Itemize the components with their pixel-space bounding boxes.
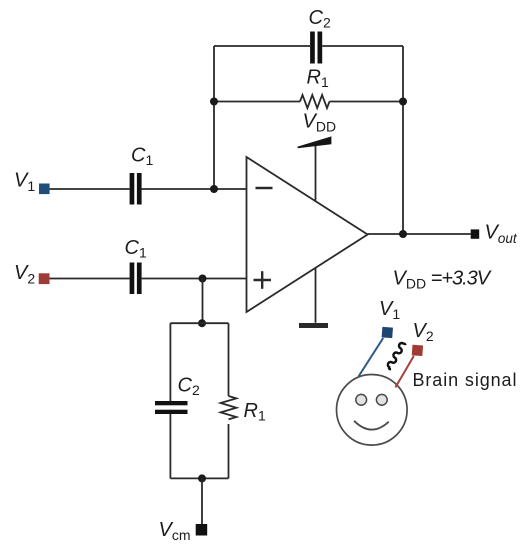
resistor R1 (top feedback zigzag) [300,95,329,108]
node junction V2/RC [199,275,207,283]
right eye [376,394,387,405]
svg-text:Brain signal: Brain signal [413,370,518,390]
wire right feedback bus [402,46,404,234]
wire non-inverting node down to RC pair [202,279,204,324]
op-amp U1 triangle [247,157,368,312]
wire RC pair right branch (R1 leads) [228,323,230,396]
ground symbol [299,323,328,328]
wire to Vcm terminal [201,478,203,524]
wire R1 feedback branch [214,101,300,103]
node junction bottom of RC pair [198,474,206,482]
wire V1 to C1 [50,188,130,190]
capacitor C2 (top feedback) [310,32,322,64]
wire output [368,233,471,235]
terminal Vout (black square) [471,229,480,238]
wire V2 to C1 [50,278,130,280]
terminal V2 electrode (dark red square) [412,345,423,356]
wire electrode V2 (red lead) [395,356,413,387]
left eye [356,394,367,405]
wire top feedback branch (C2 branch horizontal) [214,45,310,47]
terminal V1 electrode (blue square) [382,327,393,338]
node junction output/feedback [399,230,407,238]
capacitor C2 (bottom, horizontal plates) [155,401,188,414]
node junction left R1 [210,98,218,106]
wire RC pair left branch (C2 leads) [169,323,171,401]
capacitor C1 (V1 path) [130,173,142,205]
resistor R1 (bottom vertical zigzag) [221,396,237,419]
wire RC pair bottom rail [170,477,228,479]
node junction right R1 [399,98,407,106]
wire C1 to inverting input [142,188,247,190]
capacitor C1 (V2 path) [130,263,142,295]
wire VDD supply to op-amp [315,144,317,201]
op-amp minus input symbol [256,187,273,189]
op-amp plus input symbol [254,279,272,281]
head circle (brain signal source) [337,375,408,446]
smile [354,421,389,430]
wire electrode V1 (blue lead) [359,338,384,377]
wire op-amp to ground [315,268,317,323]
brain signal squiggle [386,341,406,370]
terminal V2 (dark red square) [39,273,50,284]
wire RC pair top rail [170,322,228,324]
node junction top of RC pair [198,319,206,327]
terminal V1 (blue square) [39,184,50,195]
power flag VDD [298,136,332,148]
node junction V1/feedback [210,185,218,193]
terminal Vcm (black square) [196,524,208,536]
wire left feedback bus [213,46,215,189]
wire C1 to non-inverting input [142,278,247,280]
